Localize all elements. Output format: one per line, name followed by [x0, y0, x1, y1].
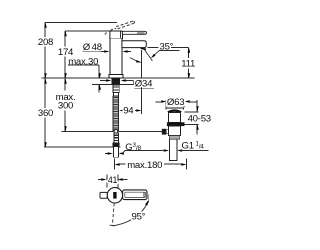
- svg-text:max.180: max.180: [127, 160, 162, 171]
- svg-text:111: 111: [181, 59, 195, 70]
- svg-text:95°: 95°: [132, 211, 146, 222]
- svg-text:300: 300: [58, 101, 73, 112]
- svg-text:360: 360: [38, 108, 53, 119]
- svg-text:max.30: max.30: [68, 56, 98, 67]
- svg-text:41: 41: [108, 175, 118, 185]
- svg-text:94: 94: [123, 106, 134, 117]
- svg-text:Ø34: Ø34: [135, 78, 153, 89]
- svg-text:208: 208: [38, 37, 53, 48]
- svg-text:40-53: 40-53: [188, 113, 211, 124]
- svg-text:Ø63: Ø63: [167, 97, 184, 108]
